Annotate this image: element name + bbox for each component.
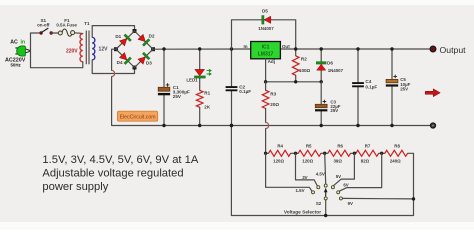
svg-text:25V: 25V (400, 87, 408, 92)
label R3 20ohm (270, 92, 279, 107)
label AC220V 50Hz (5, 58, 26, 68)
diode D2 (138, 34, 151, 47)
wire tap 5V (333, 153, 354, 186)
svg-text:50Hz: 50Hz (10, 63, 21, 68)
resistor R6 (328, 150, 351, 156)
svg-text:R8: R8 (394, 143, 400, 148)
svg-text:R5: R5 (306, 143, 312, 148)
label C1 3,300uF 25V (173, 85, 190, 99)
svg-text:9V: 9V (348, 201, 353, 206)
svg-text:Adj: Adj (268, 59, 275, 64)
wire hop R3 over ground rail (266, 122, 269, 128)
label C2 0.1uF (239, 84, 251, 94)
wire fuse to transformer (75, 32, 83, 35)
svg-text:on-off: on-off (37, 22, 50, 27)
fuse F1 (58, 29, 74, 36)
svg-text:12V: 12V (99, 47, 109, 53)
svg-text:D4: D4 (117, 60, 123, 65)
junction chain node4 (380, 152, 383, 155)
svg-text:25V: 25V (330, 108, 338, 113)
svg-text:100Ω: 100Ω (299, 68, 311, 73)
wire secondary top to bridge top node (92, 26, 134, 38)
svg-text:Adjustable voltage regulated: Adjustable voltage regulated (42, 168, 183, 180)
svg-text:1.5V, 3V, 4.5V, 5V, 6V, 9V at: 1.5V, 3V, 4.5V, 5V, 6V, 9V at 1A (42, 154, 198, 166)
svg-text:T1: T1 (84, 21, 90, 26)
resistor R3 (262, 82, 269, 154)
junction C1 bottom (162, 124, 165, 127)
label 5V (336, 174, 341, 179)
svg-text:3V: 3V (302, 175, 307, 180)
caption text (42, 154, 198, 193)
output terminal positive (430, 46, 436, 52)
svg-text:S2: S2 (316, 201, 322, 206)
label Adj pin (268, 59, 275, 64)
junction C2 bottom (230, 124, 233, 127)
junction C1 top (162, 47, 165, 50)
svg-text:0.1µF: 0.1µF (365, 84, 377, 89)
wire ground-to-selector-return vertical (231, 126, 413, 216)
rotary switch S2 contacts (312, 184, 343, 200)
svg-text:R7: R7 (365, 143, 371, 148)
LED1 (194, 49, 211, 90)
junction LED top (198, 47, 201, 50)
label C5 10uF 25V (400, 77, 410, 92)
junction chain node3 (353, 152, 356, 155)
junction 9V line (412, 197, 415, 200)
junction return top (230, 124, 233, 127)
junction chain node2 (323, 152, 326, 155)
svg-text:In: In (243, 44, 247, 49)
junction Adj-R3 (264, 80, 267, 83)
svg-text:Output: Output (440, 45, 467, 55)
wire tap 1.5V (266, 153, 312, 191)
label D4 (117, 60, 123, 65)
label D1 (115, 34, 121, 39)
wire tap 6V (340, 153, 382, 191)
svg-text:1.5V: 1.5V (295, 188, 304, 193)
label R5 120ohm (302, 143, 313, 163)
wire switch to fuse (51, 32, 58, 34)
svg-text:D6: D6 (327, 61, 333, 66)
diode D5 (262, 15, 271, 24)
label Out pin (282, 44, 290, 49)
wire D6 branch (320, 49, 322, 82)
svg-text:39Ω: 39Ω (333, 159, 342, 164)
label R2 100ohm (299, 57, 311, 74)
junction C5 bottom (390, 124, 393, 127)
svg-text:D3: D3 (146, 60, 152, 65)
transformer T1 primary winding 220V (80, 34, 83, 62)
wire bridge left node to ground rail (with hop over AC wire) (112, 49, 433, 125)
junction R2 bottom (294, 80, 297, 83)
bridge node right (151, 47, 155, 51)
svg-text:power supply: power supply (42, 181, 108, 193)
resistor R5 (298, 150, 321, 156)
label Voltage Selector (284, 210, 321, 216)
svg-text:0.1µF: 0.1µF (239, 89, 251, 94)
wire plug to top rail and bottom return (31, 33, 83, 68)
capacitor C1 (3300uF electrolytic) (158, 49, 170, 126)
output terminal negative (430, 123, 435, 128)
label 6V (343, 183, 348, 188)
resistor R7 (356, 150, 379, 156)
svg-text:D2: D2 (149, 34, 155, 39)
label F1 0.5A Fuse (56, 18, 77, 28)
diode D6 (316, 62, 326, 71)
svg-text:120Ω: 120Ω (273, 159, 284, 164)
label In pin (243, 44, 247, 49)
label R7 82ohm (361, 143, 371, 163)
svg-text:2K: 2K (204, 105, 211, 110)
junction R1 bottom (198, 124, 201, 127)
bridge node top (133, 29, 137, 33)
label R6 39ohm (333, 143, 343, 163)
resistor R1 (196, 90, 203, 125)
resistor R8 (385, 150, 408, 156)
op-amp/regulator IC1 LM317 (251, 42, 281, 59)
svg-text:4.5V: 4.5V (316, 171, 325, 176)
label D2 (149, 34, 155, 39)
svg-text:LM317: LM317 (258, 51, 274, 57)
transformer T1 core (86, 31, 89, 65)
junction pole-return (324, 214, 327, 217)
svg-text:R2: R2 (301, 57, 307, 62)
label D5 1N4007 (258, 26, 274, 31)
svg-text:D5: D5 (262, 8, 268, 13)
capacitor C4 0.1uF (352, 49, 364, 126)
label AC in (10, 40, 25, 46)
diode D4 (119, 52, 132, 65)
svg-text:R1: R1 (204, 91, 210, 96)
svg-text:C4: C4 (365, 79, 371, 84)
svg-text:LED1: LED1 (186, 77, 198, 82)
svg-text:0.5A Fuse: 0.5A Fuse (56, 22, 77, 27)
ElecCircuit.com badge (118, 111, 158, 121)
svg-text:R3: R3 (270, 92, 276, 97)
label T1 (84, 21, 90, 26)
label R1 2K (204, 91, 211, 110)
label 1.5V (295, 188, 304, 193)
label Output (440, 45, 467, 55)
switch S1 (39, 28, 53, 35)
label 3V (302, 175, 307, 180)
junction C4 top (356, 47, 359, 50)
svg-text:20Ω: 20Ω (270, 102, 279, 107)
wire Adj node horizontal (266, 81, 322, 83)
diode D1 (119, 34, 132, 47)
svg-text:Voltage Selector: Voltage Selector (284, 210, 321, 216)
wire tap 4.5V (325, 153, 326, 184)
wire main positive rail (153, 48, 430, 50)
svg-text:in: in (20, 40, 25, 46)
wire D5 branch (232, 20, 296, 49)
capacitor C5 10uF electrolytic (386, 49, 398, 126)
svg-text:D1: D1 (115, 34, 121, 39)
junction R2 top (294, 47, 297, 50)
svg-text:120Ω: 120Ω (302, 159, 313, 164)
junction chain node1 (294, 152, 297, 155)
svg-text:5V: 5V (336, 174, 341, 179)
capacitor C2 0.1uF (226, 49, 238, 126)
junction C3 bottom (320, 124, 323, 127)
svg-text:82Ω: 82Ω (361, 159, 370, 164)
label D6 1N4007 (328, 68, 344, 73)
resistor chain leads (266, 152, 385, 154)
wire Adj pin down (265, 59, 267, 82)
svg-text:220V: 220V (66, 48, 78, 54)
svg-text:6V: 6V (343, 183, 348, 188)
svg-text:IC1: IC1 (262, 44, 270, 50)
label 9V (348, 201, 353, 206)
label S2 (316, 201, 322, 206)
resistor R4 (269, 150, 291, 156)
wire tap 3V (296, 153, 318, 185)
rotary switch S2 pole (324, 188, 328, 200)
resistor R2 (292, 49, 299, 82)
capacitor C3 22uF electrolytic (315, 82, 327, 126)
wire secondary bottom to bridge bottom node (92, 60, 134, 74)
label C3 22uF 25V (330, 100, 340, 113)
svg-text:240Ω: 240Ω (390, 159, 401, 164)
svg-text:25V: 25V (173, 94, 182, 99)
transformer T1 secondary winding 12V (92, 37, 95, 60)
wire pole to return rail (325, 200, 327, 215)
svg-text:R6: R6 (337, 143, 343, 148)
svg-text:1N4007: 1N4007 (258, 26, 274, 31)
wire hop at AC crossing (112, 70, 115, 76)
junction chain node0 (264, 152, 267, 155)
label R4 120ohm (273, 143, 284, 163)
wire bridge edges (116, 31, 153, 68)
AC plug P1 (15, 46, 30, 56)
label 4.5V (316, 171, 325, 176)
diode D3 (138, 52, 151, 65)
output arrow (425, 89, 440, 97)
svg-text:1N4007: 1N4007 (328, 68, 344, 73)
label R8 240ohm (390, 143, 401, 163)
label D6 (327, 61, 333, 66)
label D3 (146, 60, 152, 65)
label C4 0.1uF (365, 79, 377, 89)
label D5 (262, 8, 268, 13)
svg-text:R4: R4 (277, 143, 283, 148)
svg-text:Out: Out (282, 44, 290, 49)
bridge node left (114, 47, 118, 51)
junction D6 top (320, 47, 323, 50)
junction C4 bottom (356, 124, 359, 127)
svg-text:ElecCircuit.com: ElecCircuit.com (120, 115, 156, 121)
label S1 on-off (37, 18, 50, 28)
label 12V (99, 47, 109, 53)
junction D6 bottom (320, 80, 323, 83)
label 220V (66, 48, 78, 54)
wire tap 9V (343, 197, 414, 200)
junction C5 top (390, 47, 393, 50)
svg-text:AC: AC (10, 40, 18, 46)
bridge node bottom (133, 66, 137, 70)
junction C2 top (230, 47, 233, 50)
label LED1 (186, 77, 198, 82)
